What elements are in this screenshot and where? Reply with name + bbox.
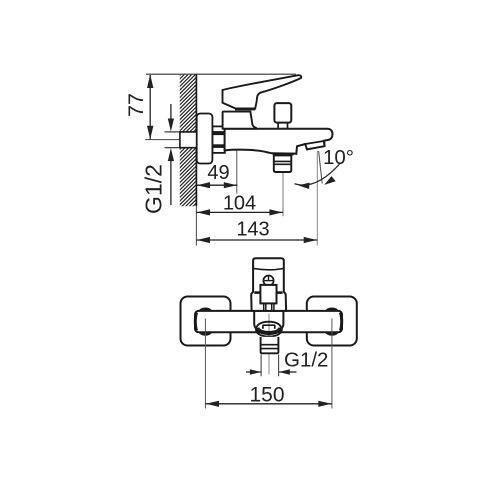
right flange centerline: [331, 319, 333, 409]
diverter axis line: [282, 128, 284, 217]
arc arrowhead left: [298, 183, 309, 189]
G1/2 threaded inlet in wall: [180, 132, 197, 148]
diverter knob: [274, 103, 291, 123]
left wall flange: [181, 297, 231, 346]
svg-text:49: 49: [207, 162, 229, 184]
right union bumps: [325, 307, 339, 311]
10 degree reference line: [319, 151, 323, 184]
dimension 104: [196, 193, 283, 216]
arc arrowhead right: [324, 176, 336, 185]
neck side stubs: [254, 291, 260, 294]
svg-text:G1/2: G1/2: [141, 164, 167, 214]
svg-text:104: 104: [223, 193, 256, 215]
wall escutcheon (side view): [197, 114, 213, 164]
dimension 77: [124, 74, 153, 139]
lever handle (side view): [223, 75, 302, 108]
wall face line: [195, 75, 197, 207]
10 degree arc: [295, 164, 341, 186]
pipe centerline: [145, 139, 211, 141]
aerator (side view): [274, 155, 292, 172]
svg-text:77: 77: [124, 93, 148, 117]
spout mouth wedge: [305, 141, 324, 149]
bar right end cap: [340, 313, 341, 331]
left union bumps: [199, 307, 213, 311]
extension line top (handle top level): [146, 73, 296, 75]
dimension 150: [205, 384, 332, 407]
spout centerline (front): [268, 314, 270, 375]
G1/2 inlet dimension arrows: [165, 104, 181, 205]
wall hatch: [168, 44, 200, 243]
lever base thick band: [235, 108, 255, 110]
handle (front view): [251, 258, 286, 311]
svg-text:143: 143: [236, 219, 269, 241]
svg-text:10°: 10°: [323, 146, 354, 169]
neck legs: [264, 303, 274, 311]
diverter stem: [278, 123, 287, 129]
spout shoulder band: [272, 153, 294, 156]
wall face extension line: [195, 206, 197, 246]
bar left end cap: [195, 313, 196, 331]
G1/2 aerator dimension arrows: [246, 371, 261, 373]
svg-text:150: 150: [249, 384, 284, 407]
G1/2 aerator extension lines: [261, 355, 279, 377]
faucet body (side view): [225, 129, 333, 154]
dimension 143: [196, 219, 317, 244]
left flange centerline: [204, 319, 206, 409]
handle neck (front view): [260, 285, 276, 304]
dimension 49: [196, 162, 237, 188]
aerator (front view): [261, 337, 279, 353]
spout (front view): [254, 311, 283, 337]
body bar (front view): [195, 311, 342, 332]
spout tip axis line: [316, 151, 318, 246]
cartridge housing: [223, 112, 257, 129]
svg-text:G1/2: G1/2: [284, 349, 328, 372]
handle top inner arc: [253, 269, 283, 270]
cartridge axis line: [236, 118, 238, 194]
right wall flange: [307, 297, 357, 346]
union nut (side view): [213, 126, 225, 152]
temperature screw: [263, 276, 273, 286]
